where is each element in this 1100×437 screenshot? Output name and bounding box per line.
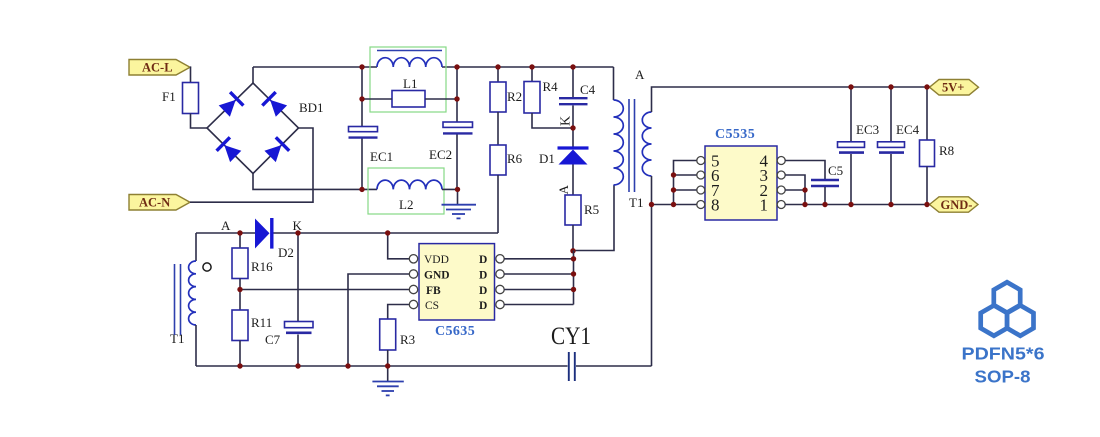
wire L1 parallel resistor row — [362, 98, 457, 100]
capacitor EC2 — [429, 122, 473, 162]
transformer T1 primary winding — [614, 67, 624, 185]
svg-text:C7: C7 — [265, 332, 281, 347]
svg-text:T1: T1 — [629, 195, 643, 210]
wire aux top (node A to K rail) — [196, 232, 498, 234]
polarity mark O — [203, 263, 211, 271]
svg-text:CS: CS — [425, 300, 439, 312]
synchronous rectifier U2 C5535 — [697, 127, 785, 220]
svg-text:C5: C5 — [828, 163, 843, 178]
svg-text:GND-: GND- — [941, 198, 973, 212]
pin number 5 — [711, 151, 720, 170]
logo text PDFN5*6 — [962, 343, 1045, 363]
svg-text:T1: T1 — [170, 331, 184, 346]
junction dots secondary tie — [649, 172, 676, 207]
wire pins 5-8 tie bus — [674, 161, 697, 205]
wire secondary bottom to pin8 — [652, 204, 697, 206]
svg-text:D2: D2 — [278, 245, 294, 260]
svg-text:R16: R16 — [251, 259, 273, 274]
svg-text:AC-N: AC-N — [139, 196, 170, 210]
transformer T1 core — [629, 99, 635, 192]
wire secondary bottom node — [651, 176, 653, 366]
capacitor C5 — [811, 163, 843, 205]
wire GND net of U1 — [348, 274, 410, 366]
svg-text:5V+: 5V+ — [942, 81, 964, 95]
svg-text:EC1: EC1 — [370, 149, 393, 164]
resistor R8 — [920, 87, 955, 205]
wire bridge top corner to top rail — [252, 67, 254, 83]
pin CS — [425, 300, 439, 312]
pin D (drain 4) — [479, 300, 487, 312]
fuse F1 — [162, 83, 199, 114]
junction dots bottom-left — [237, 230, 390, 368]
resistor R5 — [565, 195, 599, 251]
pin number 2 — [760, 181, 769, 200]
diode D2 — [255, 218, 294, 260]
wire L2 right to ground — [442, 189, 458, 204]
capacitor EC4 — [878, 87, 920, 205]
svg-text:C5635: C5635 — [435, 324, 475, 339]
resistor R16 — [232, 233, 273, 290]
transformer T1 auxiliary winding — [170, 233, 196, 366]
logo hexagon top — [994, 282, 1020, 312]
transformer T1 aux core — [175, 264, 181, 335]
controller U1 C5635 — [409, 244, 504, 339]
wire AC-N to bridge right corner — [190, 128, 313, 202]
svg-text:D: D — [479, 270, 487, 282]
logo text SOP-8 — [975, 367, 1031, 387]
svg-text:EC2: EC2 — [429, 147, 452, 162]
wire R5 bottom to primary return — [573, 185, 614, 251]
svg-text:K: K — [559, 116, 574, 126]
svg-text:CY1: CY1 — [551, 323, 591, 350]
port GND- — [930, 197, 979, 212]
transformer T1 secondary winding — [629, 112, 652, 210]
svg-text:A: A — [221, 218, 231, 233]
wire F1 to bridge left corner — [191, 114, 208, 129]
port AC-N — [129, 195, 190, 211]
wire pin4 to C5 top — [785, 161, 825, 180]
logo hexagon bottom-right — [1007, 305, 1033, 335]
pin number 8 — [711, 195, 720, 214]
capacitor EC3 — [838, 87, 880, 205]
wire pins 3,2 tie to GND rail — [785, 175, 805, 205]
capacitor C7 — [265, 322, 313, 348]
pin number 7 — [711, 181, 720, 200]
pin D (drain 3) — [479, 285, 487, 297]
bridge rectifier BD1 — [207, 83, 324, 174]
wire bridge bottom corner to bottom rail — [253, 174, 377, 190]
pin number 6 — [711, 166, 720, 185]
inductor L1 (common-mode choke, green box) — [370, 47, 446, 112]
wire GND rail (pin1 to GND port) — [785, 204, 929, 206]
pin FB — [426, 285, 441, 297]
wire VDD net — [388, 233, 410, 259]
svg-text:C5535: C5535 — [715, 127, 755, 142]
logo hexagon bottom-left — [981, 305, 1007, 335]
svg-text:C4: C4 — [580, 82, 596, 97]
svg-text:VDD: VDD — [424, 254, 449, 266]
wire CY1 to secondary return — [576, 365, 652, 367]
diode D1 — [539, 128, 589, 195]
capacitor C4 — [559, 67, 596, 128]
port 5V+ — [930, 80, 979, 96]
junction dots drain bus — [571, 256, 576, 292]
svg-text:EC4: EC4 — [896, 122, 920, 137]
svg-text:8: 8 — [711, 195, 720, 214]
svg-text:BD1: BD1 — [299, 100, 324, 115]
port AC-L — [129, 60, 190, 76]
svg-text:D: D — [479, 254, 487, 266]
node K (cathode label, rotated) — [559, 116, 574, 126]
resistor R4 — [524, 67, 573, 128]
pin VDD — [424, 254, 449, 266]
svg-text:R5: R5 — [584, 202, 599, 217]
svg-text:F1: F1 — [162, 89, 176, 104]
resistor R2 — [490, 67, 522, 112]
resistor R11 — [232, 290, 272, 367]
inductor L2 (green box) — [368, 168, 444, 214]
pin GND — [424, 270, 450, 282]
capacitor CY1 — [551, 323, 591, 381]
svg-text:R2: R2 — [507, 89, 522, 104]
svg-text:R6: R6 — [507, 151, 523, 166]
svg-text:SOP-8: SOP-8 — [975, 367, 1031, 387]
svg-text:GND: GND — [424, 270, 450, 282]
junction dots EMI — [359, 64, 460, 192]
junction dots snubber — [495, 64, 575, 253]
svg-text:1: 1 — [760, 195, 769, 214]
node A (anode label, rotated) — [556, 185, 571, 195]
wire secondary top to 5V+ rail — [652, 87, 930, 112]
ground (primary EMI) — [442, 205, 477, 219]
node K label — [293, 218, 303, 233]
node A label — [221, 218, 231, 233]
wire aux bottom rail — [196, 365, 568, 367]
pin number 3 — [760, 166, 769, 185]
pin number 4 — [760, 151, 769, 170]
svg-text:R11: R11 — [251, 315, 272, 330]
capacitor EC1 — [349, 127, 394, 165]
wire FB net — [240, 289, 410, 291]
svg-text:PDFN5*6: PDFN5*6 — [962, 343, 1045, 363]
node A (secondary start) — [635, 67, 645, 82]
wire AC-L to F1 — [189, 67, 192, 82]
svg-text:L2: L2 — [399, 197, 413, 212]
svg-text:EC3: EC3 — [856, 122, 879, 137]
svg-text:D: D — [479, 300, 487, 312]
svg-text:A: A — [556, 185, 571, 195]
pin D (drain 1) — [479, 254, 487, 266]
svg-text:D: D — [479, 285, 487, 297]
wire C7 column — [297, 233, 299, 366]
svg-text:R4: R4 — [543, 79, 559, 94]
resistor R6 — [490, 112, 523, 233]
svg-text:FB: FB — [426, 285, 441, 297]
wire top rail (DC bus) — [253, 66, 614, 68]
resistor R3 — [380, 319, 415, 382]
pin number 1 — [760, 195, 769, 214]
wire drain bus to primary — [504, 251, 573, 305]
junction dots output — [802, 84, 929, 207]
wire EC2 column — [456, 67, 458, 189]
svg-text:AC-L: AC-L — [142, 61, 173, 75]
svg-text:L1: L1 — [403, 76, 417, 91]
svg-text:A: A — [635, 67, 645, 82]
svg-text:R8: R8 — [939, 143, 954, 158]
svg-text:R3: R3 — [400, 332, 415, 347]
wire EC1 column — [361, 67, 363, 189]
svg-text:D1: D1 — [539, 151, 555, 166]
pin D (drain 2) — [479, 270, 487, 282]
wire CS net to R3 — [388, 305, 410, 320]
ground (control) — [372, 382, 403, 396]
